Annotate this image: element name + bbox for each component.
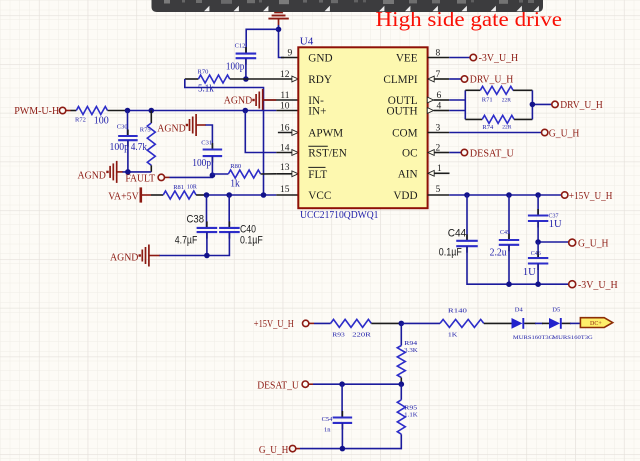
capacitor C38 [175, 195, 217, 256]
wire D5 to DC port [562, 322, 571, 324]
wire PWM row [128, 110, 277, 112]
svg-text:2.2u: 2.2u [490, 248, 508, 259]
ground AGND (C31) [157, 114, 206, 136]
svg-text:AGND: AGND [224, 96, 253, 107]
svg-text:4.7µF: 4.7µF [175, 235, 198, 247]
svg-text:C45: C45 [500, 230, 510, 236]
node VCC junctions [204, 192, 210, 198]
svg-text:+15V_U_H: +15V_U_H [254, 319, 294, 330]
pin 12 RDY [246, 70, 298, 82]
svg-text:R72: R72 [75, 117, 86, 124]
pin 1 AIN [428, 164, 450, 176]
pin 3 COM [428, 123, 450, 133]
diode D5 [549, 306, 593, 341]
pin 14 RST/EN [276, 143, 298, 155]
svg-text:12: 12 [280, 70, 290, 80]
wire resistor join [531, 90, 533, 119]
pin 9 GND [281, 48, 298, 58]
svg-text:AGND: AGND [110, 253, 139, 264]
svg-text:15: 15 [280, 185, 290, 195]
wire AGND row [123, 171, 152, 173]
port +15V_U_H (VDD) [562, 191, 613, 202]
wire G row bottom [300, 448, 342, 450]
svg-text:AIN: AIN [398, 168, 418, 180]
pin 5 VDD [428, 185, 450, 195]
svg-text:RST/EN: RST/EN [308, 148, 347, 160]
svg-text:16: 16 [280, 123, 290, 133]
node R93/R94 [399, 321, 405, 327]
svg-text:PWM-U-H: PWM-U-H [14, 106, 59, 117]
node PWM junctions [125, 108, 131, 114]
svg-text:R80: R80 [230, 163, 241, 170]
resistor R93 [314, 319, 401, 338]
resistor R80 [212, 163, 276, 190]
svg-text:D5: D5 [552, 306, 560, 313]
wire R70 to VCC rail [185, 79, 264, 195]
power VA+5V [108, 187, 151, 202]
capacitor C12 [226, 43, 256, 73]
resistor R81 [151, 184, 207, 199]
svg-text:-3V_U_H: -3V_U_H [578, 280, 618, 291]
svg-text:+15V_U_H: +15V_U_H [569, 191, 613, 202]
svg-text:3: 3 [436, 123, 441, 133]
svg-text:-3V_U_H: -3V_U_H [479, 53, 519, 64]
svg-text:5: 5 [436, 185, 441, 195]
svg-text:220R: 220R [352, 332, 371, 339]
wire to C12 [246, 29, 278, 53]
svg-text:G_U_H: G_U_H [259, 445, 289, 456]
svg-text:U4: U4 [300, 35, 314, 47]
pin 11 IN- [265, 91, 299, 101]
resistor R75 [131, 111, 156, 172]
svg-text:C38: C38 [187, 214, 205, 226]
node C38 bottom [204, 253, 210, 259]
resistor R70 [185, 69, 246, 95]
svg-text:R74: R74 [482, 124, 494, 131]
resistor R72 [71, 107, 128, 127]
svg-text:OC: OC [402, 148, 418, 160]
svg-text:2: 2 [436, 143, 441, 153]
svg-text:VDD: VDD [393, 190, 417, 202]
svg-text:R70: R70 [198, 69, 209, 76]
svg-text:APWM: APWM [308, 128, 343, 140]
pin 7 CLMPI [428, 70, 449, 82]
svg-text:MURS160T3G: MURS160T3G [552, 335, 593, 341]
svg-text:CLMPI: CLMPI [383, 74, 417, 86]
wire IN+ to RST/EN [245, 111, 276, 153]
svg-text:0.1µF: 0.1µF [439, 247, 462, 259]
svg-text:DESAT_U: DESAT_U [257, 380, 299, 391]
port G_U_H (bottom) [259, 445, 300, 456]
svg-text:OUTH: OUTH [387, 106, 418, 118]
port DRV_U_H (CLMPI) [449, 75, 513, 86]
wire C12 to RDY [245, 58, 247, 79]
svg-text:3.3K: 3.3K [404, 347, 418, 354]
svg-text:R81: R81 [173, 184, 184, 191]
svg-text:100p: 100p [110, 142, 130, 153]
svg-text:5.1k: 5.1k [198, 84, 214, 95]
svg-text:AGND: AGND [157, 124, 186, 135]
svg-text:C54: C54 [322, 416, 334, 423]
svg-text:22R: 22R [502, 97, 512, 103]
svg-text:13: 13 [280, 163, 290, 173]
node gnd junction [276, 27, 282, 33]
svg-text:DESAT_U: DESAT_U [470, 148, 514, 159]
port -3V_U_H (cap bank) [569, 280, 618, 291]
op-amp U4 UCC21710QDWQ1 [298, 35, 427, 221]
node C30 bottom [125, 169, 131, 175]
port FAULT [125, 174, 169, 185]
svg-text:R140: R140 [448, 308, 467, 315]
pin 2 OC [428, 143, 449, 155]
port DC+ [580, 318, 612, 328]
svg-text:9: 9 [288, 48, 293, 58]
svg-text:1U: 1U [523, 267, 536, 278]
port DESAT_U (OC) [449, 148, 514, 159]
wire AGND to C38 [160, 255, 207, 257]
node RDY junction [243, 76, 249, 82]
capacitor C31 [192, 125, 222, 175]
svg-text:14: 14 [280, 143, 290, 153]
svg-text:11: 11 [280, 91, 289, 101]
ground AGND (C30/R75) [78, 161, 124, 183]
node DESAT junctions [339, 381, 345, 387]
svg-text:C12: C12 [235, 43, 246, 50]
wire -3V row [509, 283, 569, 285]
wire gnd stem to pin9 [279, 25, 285, 58]
pin 4 OUTH [427, 101, 449, 113]
svg-text:AGND: AGND [78, 171, 107, 182]
pin 16 APWM [278, 123, 298, 135]
svg-text:22R: 22R [502, 125, 512, 131]
svg-text:R75: R75 [140, 127, 151, 134]
svg-text:C31: C31 [201, 140, 212, 147]
svg-text:C30: C30 [117, 124, 128, 131]
svg-text:D4: D4 [515, 306, 524, 313]
diode D4 [512, 306, 554, 341]
svg-text:R71: R71 [482, 97, 493, 104]
svg-text:G_U_H: G_U_H [578, 238, 609, 249]
svg-text:R93: R93 [332, 332, 345, 339]
port DRV_U_H (OUT) [552, 100, 603, 111]
capacitor C45 [490, 195, 520, 284]
resistor R95 [342, 384, 418, 448]
node VDD junctions [464, 192, 470, 198]
wire DESAT row [313, 383, 401, 385]
node C54 bottom [340, 446, 346, 452]
pin 6 OUTL [427, 91, 449, 103]
capacitor C40 [207, 195, 263, 256]
wire VCC rail [207, 194, 277, 196]
capacitor C30 [110, 111, 138, 172]
svg-text:DC+: DC+ [590, 321, 602, 327]
svg-text:6: 6 [437, 91, 442, 101]
svg-text:4.7k: 4.7k [131, 142, 148, 153]
svg-text:0.1µF: 0.1µF [240, 235, 263, 247]
wire FAULT row [170, 175, 213, 177]
resistor R71 [465, 86, 532, 103]
svg-text:IN+: IN+ [308, 106, 326, 118]
svg-text:UCC21710QDWQ1: UCC21710QDWQ1 [300, 209, 379, 221]
port DESAT_U (bottom) [257, 380, 313, 391]
svg-text:C44: C44 [448, 228, 467, 240]
resistor R94 [397, 323, 418, 384]
pin 10 IN+ [276, 101, 298, 111]
wire D4-D5 [524, 322, 536, 324]
port G_U_H (COM) [449, 128, 579, 139]
ground AGND (C38/C40) [110, 245, 160, 267]
ground [268, 12, 288, 25]
svg-text:10: 10 [280, 101, 290, 111]
svg-text:FAULT: FAULT [125, 174, 155, 185]
svg-text:G_U_H: G_U_H [549, 128, 580, 139]
node FAULT/C31 [210, 172, 216, 178]
pin 13 FLT [276, 163, 298, 177]
capacitor C37 [528, 195, 562, 242]
resistor R140 [401, 308, 512, 339]
svg-text:7: 7 [436, 70, 441, 80]
svg-text:RDY: RDY [308, 74, 332, 86]
capacitor C46 [523, 242, 548, 284]
svg-text:1n: 1n [324, 427, 331, 434]
svg-text:1: 1 [437, 164, 442, 174]
capacitor C44 [439, 195, 509, 284]
svg-text:100p: 100p [226, 62, 244, 73]
node -3V junctions [506, 281, 512, 287]
port +15V_U_H (bottom) [254, 319, 314, 330]
svg-text:1k: 1k [230, 179, 240, 190]
svg-text:1K: 1K [448, 332, 458, 339]
svg-text:1.1K: 1.1K [404, 411, 418, 418]
svg-text:VCC: VCC [308, 190, 331, 202]
svg-text:4: 4 [437, 101, 442, 111]
node C37/C46 [535, 239, 541, 245]
svg-text:MURS160T3G: MURS160T3G [513, 335, 554, 341]
svg-text:10R: 10R [187, 184, 197, 190]
port G_U_H (cap bank) [569, 238, 609, 249]
toolbar [152, 0, 544, 12]
wire VDD rail [449, 194, 561, 196]
node DRV join [530, 102, 536, 108]
svg-text:VA+5V: VA+5V [108, 192, 139, 203]
pin 8 VEE [428, 48, 450, 58]
svg-text:GND: GND [308, 53, 332, 65]
pin 15 VCC [276, 185, 298, 195]
svg-text:COM: COM [392, 128, 418, 140]
svg-text:100p: 100p [192, 158, 211, 169]
svg-text:1U: 1U [549, 219, 562, 230]
svg-text:C46: C46 [531, 251, 541, 257]
svg-text:8: 8 [436, 48, 441, 58]
resistor R74 [465, 115, 532, 130]
svg-text:100: 100 [94, 116, 109, 127]
ground AGND (IN-) [224, 89, 276, 111]
wire OUTL/OUTH to parallel resistors [449, 99, 465, 101]
port -3V_U_H (VEE) [449, 53, 518, 64]
port PWM-U-H [14, 106, 70, 117]
svg-text:DRV_U_H: DRV_U_H [560, 100, 603, 111]
svg-text:VEE: VEE [396, 53, 418, 65]
capacitor C54 [322, 384, 353, 448]
wire G row [538, 241, 569, 243]
svg-text:DRV_U_H: DRV_U_H [470, 75, 514, 86]
svg-text:FLT: FLT [308, 169, 327, 181]
